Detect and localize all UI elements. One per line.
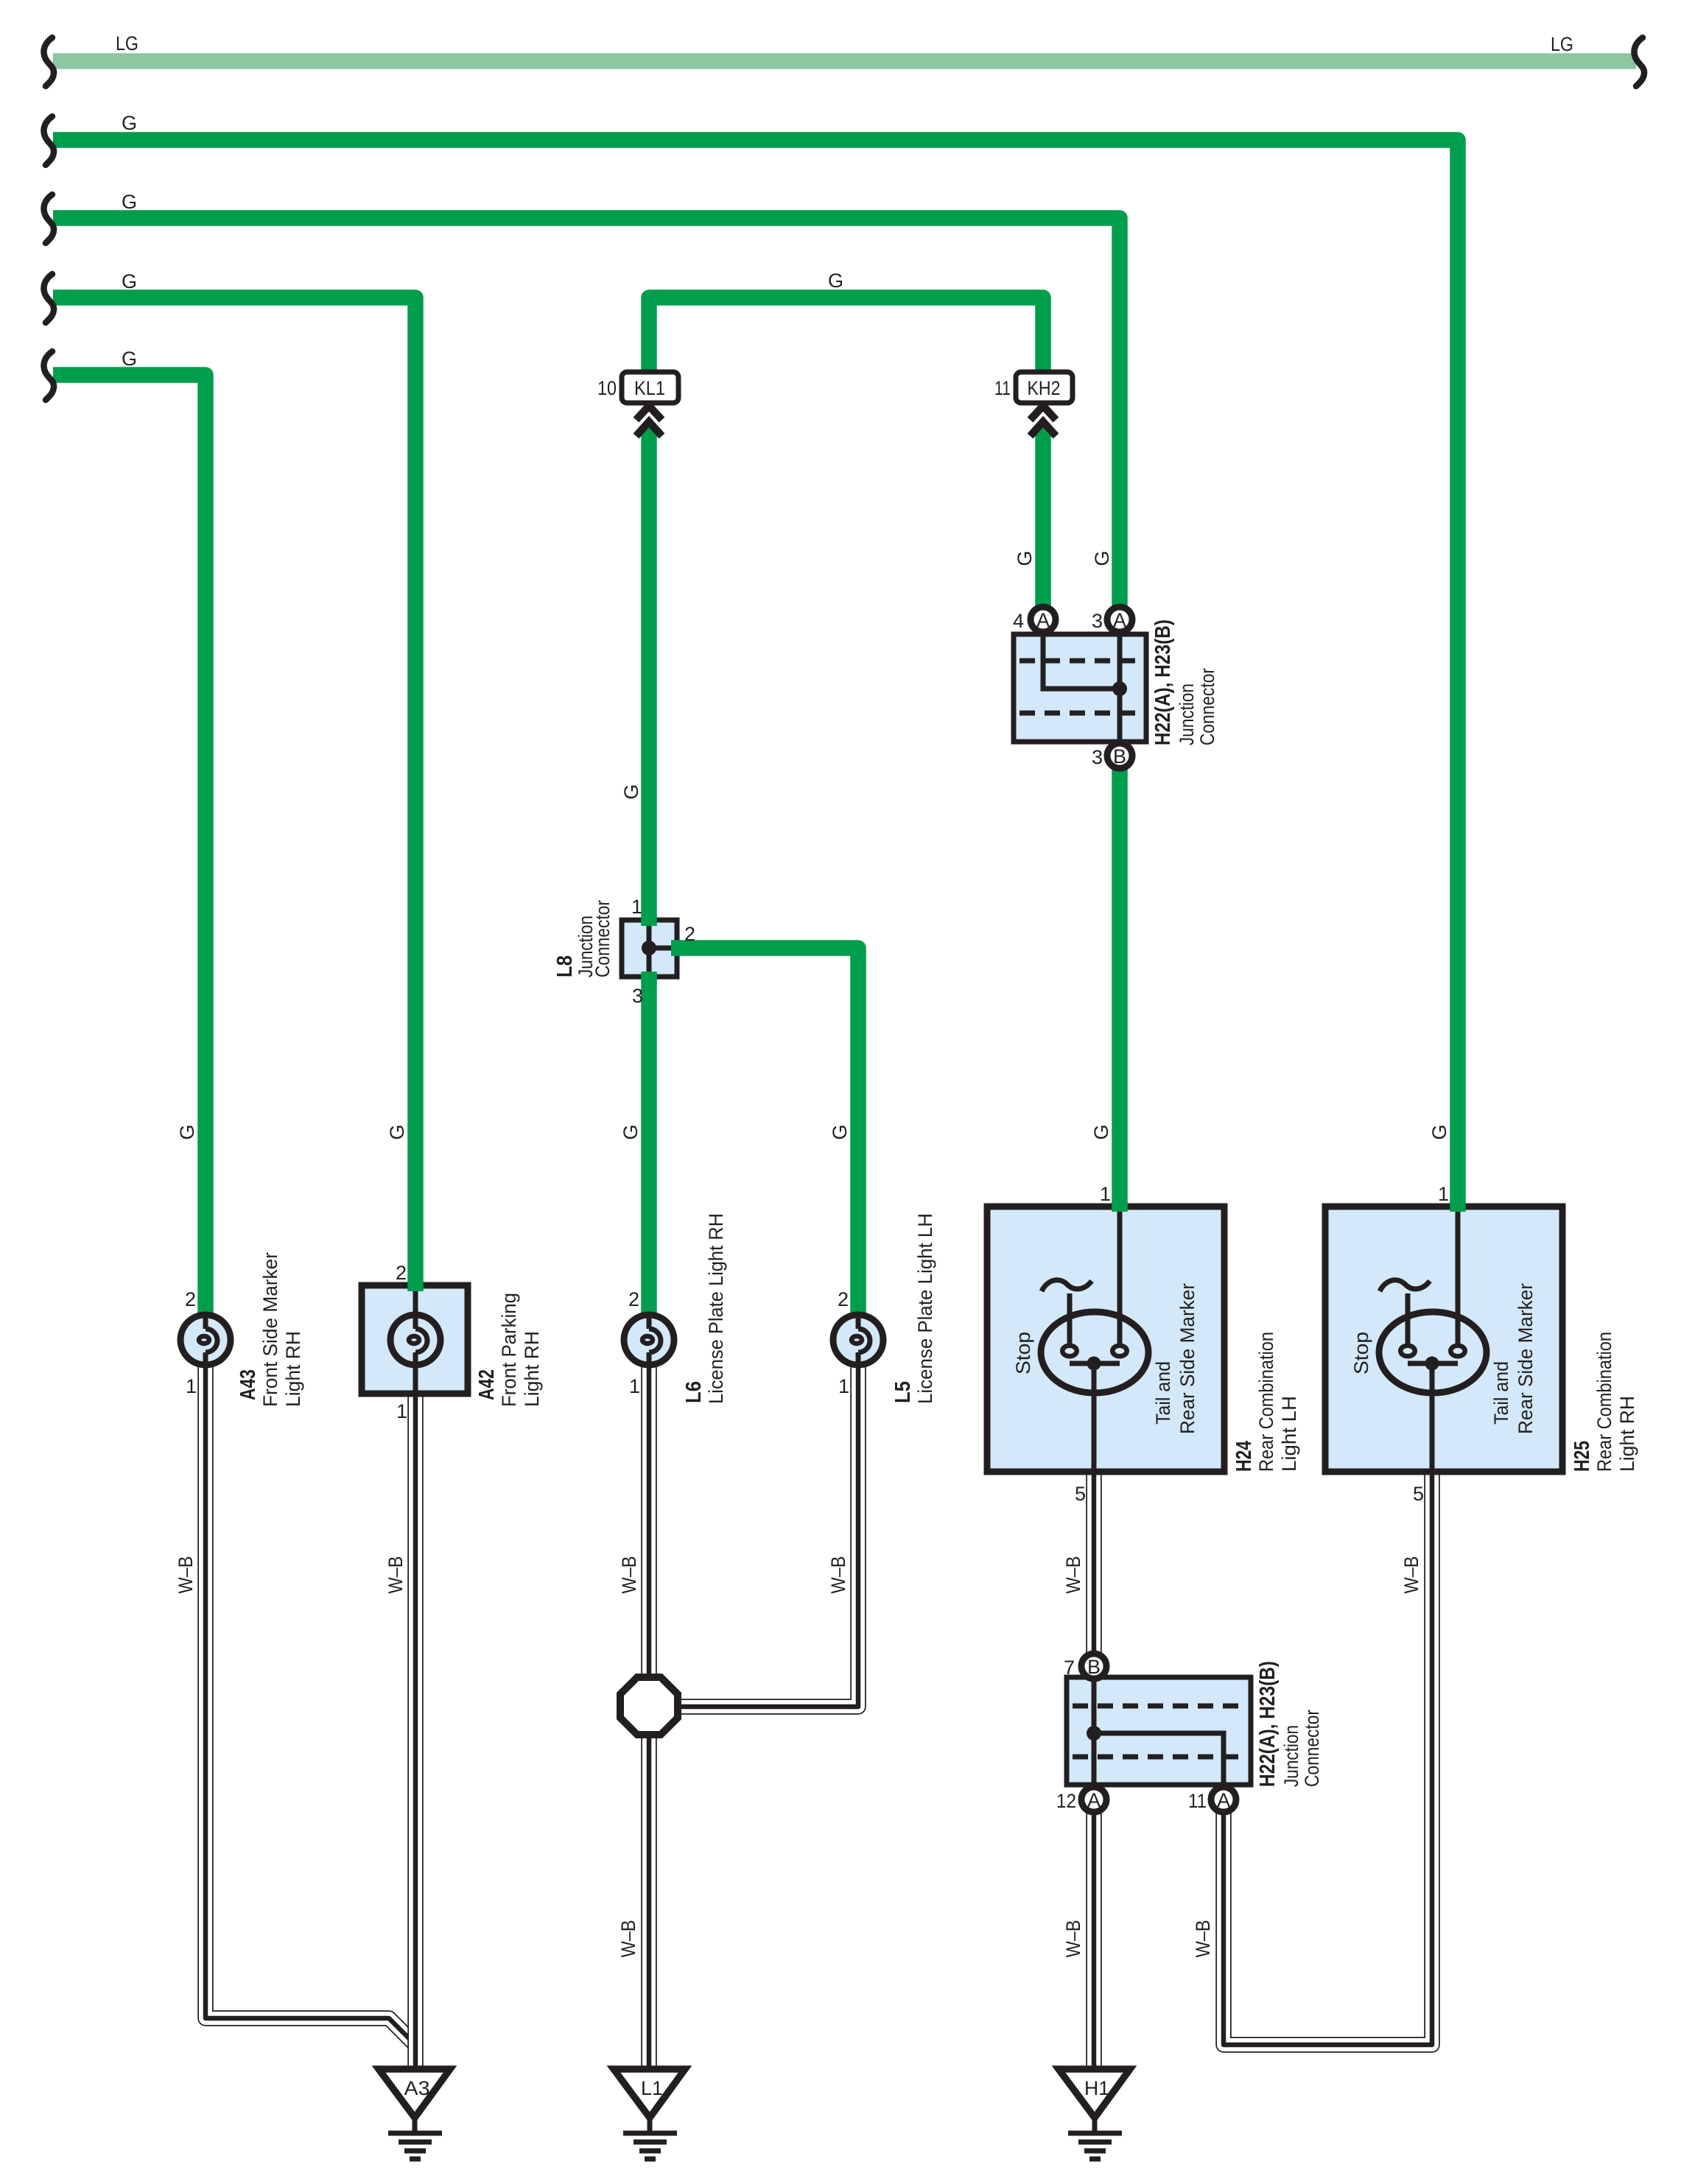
- svg-text:W–B: W–B: [1062, 1556, 1084, 1594]
- svg-text:G: G: [122, 270, 137, 292]
- svg-text:W–B: W–B: [618, 1556, 640, 1594]
- svg-text:Front Parking: Front Parking: [498, 1293, 520, 1407]
- svg-text:A: A: [1087, 1789, 1101, 1811]
- wire W-B A43 down and bend to A3: [206, 1363, 415, 2045]
- connector KH2 chevrons: [1031, 406, 1056, 420]
- svg-text:1: 1: [838, 1375, 849, 1397]
- svg-text:W–B: W–B: [617, 1920, 639, 1958]
- wire G L8 branch to L5: [673, 948, 858, 1317]
- svg-text:H22(A), H23(B): H22(A), H23(B): [1151, 619, 1175, 745]
- svg-text:G: G: [828, 270, 843, 292]
- svg-text:1: 1: [1438, 1183, 1449, 1205]
- component L6 License Plate Light RH bulb: [624, 1315, 674, 1365]
- svg-text:H1: H1: [1084, 2077, 1109, 2099]
- svg-text:L5: L5: [891, 1381, 915, 1403]
- svg-text:G: G: [1090, 1124, 1112, 1140]
- svg-text:W–B: W–B: [1192, 1920, 1214, 1958]
- node break symbol G row5: [43, 351, 54, 400]
- wire W-B A42 down to ground A3: [407, 1391, 424, 2071]
- svg-text:1: 1: [396, 1400, 407, 1422]
- connector KL1 box: [622, 372, 678, 403]
- connector KH2 box: [1016, 372, 1073, 403]
- svg-text:LG: LG: [116, 32, 138, 55]
- svg-text:KH2: KH2: [1028, 377, 1061, 399]
- svg-text:A42: A42: [475, 1369, 499, 1400]
- svg-text:Rear Combination: Rear Combination: [1255, 1332, 1277, 1472]
- svg-text:Rear Combination: Rear Combination: [1593, 1332, 1615, 1472]
- svg-text:Rear Side Marker: Rear Side Marker: [1176, 1283, 1199, 1434]
- svg-text:Junction: Junction: [1280, 1725, 1302, 1787]
- svg-text:G: G: [620, 784, 642, 799]
- node break symbol right LG: [1634, 38, 1644, 86]
- svg-text:Junction: Junction: [1176, 684, 1198, 745]
- component H24 Rear Combination Light LH: [987, 1207, 1224, 1472]
- svg-text:G: G: [122, 191, 137, 213]
- wire G row3 to junction connector A3: [53, 218, 1120, 610]
- svg-text:L8: L8: [553, 955, 577, 977]
- svg-text:Connector: Connector: [1301, 1710, 1323, 1787]
- svg-text:B: B: [1113, 745, 1126, 768]
- svg-text:Connector: Connector: [1196, 668, 1218, 745]
- node break symbol G row4: [43, 274, 54, 323]
- junction connector L8 box: [622, 920, 677, 977]
- wire G junction connector B3 down to H24: [1112, 768, 1128, 1212]
- wire G mid horizontal KL1 to KH2: [649, 298, 1043, 377]
- svg-text:11: 11: [1188, 1790, 1207, 1812]
- wire LG top horizontal: [53, 53, 1636, 69]
- svg-text:H24: H24: [1232, 1441, 1256, 1472]
- svg-text:L1: L1: [641, 2077, 663, 2099]
- svg-text:Tail and: Tail and: [1152, 1361, 1174, 1425]
- pin circle B3 upper junction: [1107, 743, 1132, 768]
- ground A3: [379, 2069, 450, 2159]
- svg-text:A43: A43: [236, 1369, 260, 1400]
- svg-text:W–B: W–B: [1400, 1556, 1422, 1594]
- svg-text:1: 1: [186, 1375, 197, 1397]
- svg-text:G: G: [1428, 1124, 1450, 1140]
- pin circle B7 lower junction: [1081, 1654, 1106, 1679]
- svg-text:Light RH: Light RH: [1616, 1396, 1638, 1472]
- svg-text:Rear Side Marker: Rear Side Marker: [1515, 1283, 1537, 1434]
- component A42 Front Parking Light RH: [362, 1285, 468, 1394]
- svg-text:G: G: [620, 1124, 642, 1140]
- svg-text:License Plate Light RH: License Plate Light RH: [705, 1213, 727, 1404]
- pin circle A3 upper junction: [1107, 607, 1132, 632]
- junction connector H22(A) H23(B) lower box: [1067, 1677, 1251, 1785]
- svg-text:A: A: [1113, 609, 1126, 631]
- svg-text:H25: H25: [1571, 1441, 1594, 1472]
- wire G row2 to H25: [53, 140, 1458, 1212]
- pin circle A12 lower junction: [1081, 1787, 1106, 1812]
- svg-text:W–B: W–B: [385, 1556, 407, 1594]
- svg-text:5: 5: [1413, 1483, 1424, 1505]
- svg-text:LG: LG: [1551, 33, 1573, 55]
- svg-text:1: 1: [629, 1375, 640, 1397]
- svg-text:W–B: W–B: [827, 1556, 849, 1594]
- node break symbol G row3: [43, 194, 54, 243]
- node break symbol G row2: [43, 116, 54, 165]
- svg-text:W–B: W–B: [1062, 1920, 1084, 1958]
- svg-text:Front Side Marker: Front Side Marker: [259, 1252, 281, 1407]
- svg-text:3: 3: [1092, 610, 1103, 632]
- svg-text:B: B: [1087, 1656, 1101, 1678]
- svg-text:G: G: [122, 348, 137, 370]
- svg-text:G: G: [1014, 550, 1036, 566]
- svg-text:2: 2: [628, 1288, 639, 1310]
- svg-text:2: 2: [185, 1288, 196, 1310]
- ground H1: [1059, 2069, 1130, 2159]
- svg-text:Stop: Stop: [1350, 1332, 1372, 1374]
- pin circle A11 lower junction: [1211, 1787, 1236, 1812]
- svg-text:G: G: [386, 1124, 408, 1140]
- svg-text:License Plate Light LH: License Plate Light LH: [914, 1213, 936, 1404]
- svg-text:H22(A), H23(B): H22(A), H23(B): [1256, 1661, 1280, 1787]
- svg-text:G: G: [176, 1124, 198, 1140]
- svg-text:Light LH: Light LH: [1278, 1396, 1300, 1472]
- svg-text:1: 1: [631, 896, 642, 918]
- svg-text:KL1: KL1: [634, 377, 665, 399]
- svg-text:5: 5: [1075, 1483, 1086, 1505]
- svg-text:1: 1: [1100, 1183, 1111, 1205]
- wire G KH2 down to junction connector A4: [1035, 423, 1051, 610]
- pin circle A4 upper junction: [1031, 607, 1056, 632]
- wire W-B L6 down to octagon splice: [641, 1363, 657, 1681]
- wire W-B L5 down to octagon splice: [675, 1363, 858, 1707]
- svg-text:4: 4: [1013, 610, 1024, 632]
- wire G KL1 down to L8: [641, 423, 657, 925]
- svg-text:2: 2: [396, 1262, 407, 1284]
- svg-text:G: G: [122, 112, 137, 134]
- connector KL1 chevrons: [636, 406, 662, 420]
- wire G row5 to A43: [53, 375, 206, 1317]
- svg-text:Stop: Stop: [1012, 1332, 1034, 1374]
- svg-text:11: 11: [994, 377, 1011, 399]
- svg-text:A: A: [1217, 1789, 1230, 1811]
- ground L1: [614, 2069, 685, 2159]
- svg-text:Light RH: Light RH: [282, 1331, 304, 1407]
- svg-text:A: A: [1036, 609, 1050, 631]
- component H25 Rear Combination Light RH: [1325, 1207, 1562, 1472]
- wire W-B H24 pin5 down to junction connector B7: [1086, 1469, 1102, 1656]
- svg-text:L6: L6: [682, 1381, 706, 1403]
- svg-text:Connector: Connector: [592, 900, 614, 977]
- svg-text:12: 12: [1056, 1790, 1076, 1812]
- svg-text:G: G: [1091, 550, 1113, 566]
- component A43 Front Side Marker Light RH bulb: [180, 1315, 231, 1365]
- component L5 License Plate Light LH bulb: [833, 1315, 883, 1365]
- svg-text:10: 10: [597, 377, 617, 399]
- svg-text:3: 3: [632, 985, 643, 1007]
- junction connector H22(A) H23(B) upper box: [1014, 634, 1146, 742]
- svg-text:Tail and: Tail and: [1490, 1361, 1512, 1425]
- svg-text:3: 3: [1092, 746, 1103, 768]
- svg-text:W–B: W–B: [175, 1556, 197, 1594]
- wire G overlay entries over borders: [407, 1282, 424, 1291]
- node break symbol left LG: [43, 38, 54, 86]
- svg-text:7: 7: [1064, 1657, 1075, 1679]
- svg-text:2: 2: [684, 923, 695, 945]
- svg-text:Light RH: Light RH: [521, 1331, 543, 1407]
- wire W-B octagon splice down to ground L1: [641, 1731, 657, 2071]
- wire G L8 down to L6: [641, 972, 657, 1317]
- wire W-B junction connector A12 down to ground H1: [1086, 1811, 1102, 2071]
- svg-text:2: 2: [838, 1288, 849, 1310]
- svg-text:G: G: [829, 1124, 851, 1140]
- wire G row4 to A42: [53, 298, 415, 1291]
- splice octagon: [620, 1677, 678, 1735]
- wire W-B H25 pin5 loop to junction connector A11: [1224, 1469, 1432, 2045]
- svg-text:A3: A3: [404, 2077, 430, 2099]
